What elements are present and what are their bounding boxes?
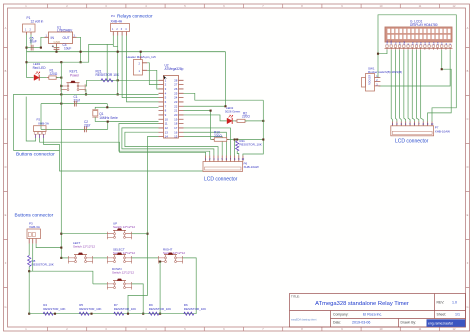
- svg-text:GND: GND: [54, 40, 62, 44]
- svg-text:ATmega328 standalone Relay Tim: ATmega328 standalone Relay Timer: [315, 301, 409, 307]
- wire U2 pin25 to right loop: [184, 93, 264, 100]
- junction bus R4: [54, 313, 56, 315]
- resistor R8 10K zigzag: [28, 256, 31, 267]
- svg-text:REV:: REV:: [437, 301, 445, 305]
- svg-text:VDD: VDD: [391, 40, 393, 45]
- wire U2 pin20 to LED2: [184, 115, 227, 121]
- wire U2 pin14 down through UP row to bus: [128, 137, 159, 314]
- svg-text:LCD connector: LCD connector: [395, 139, 429, 145]
- switch LEFT: [68, 255, 92, 264]
- junction U1 OUT bus: [80, 51, 82, 53]
- svg-text:RESISTOR 10K: RESISTOR 10K: [96, 73, 120, 77]
- junction trunk rail62: [60, 61, 62, 63]
- wire R11 to LCD conn pin9: [237, 151, 239, 156]
- svg-text:Power: Power: [70, 73, 80, 77]
- wire P1 pin2 down: [30, 35, 32, 45]
- svg-text:El Roza inc.: El Roza inc.: [363, 313, 382, 317]
- junction bus R9: [159, 313, 161, 315]
- wire relay pin3 to U2 pin5: [122, 36, 158, 98]
- wire JP1 pin5 up to bus: [140, 52, 142, 56]
- wire display pin6 to P7 pin5: [408, 50, 410, 122]
- junction KEY1 rail: [85, 93, 87, 95]
- junction R11 top: [236, 138, 238, 140]
- resistor R9 10K zigzag: [149, 312, 159, 315]
- wire relay pin4 to U2 pin6: [127, 36, 159, 102]
- wire LED1 to R1: [39, 77, 47, 79]
- capacitor C4 10uF polarized: [54, 48, 60, 50]
- wire U2 pin17 to LCD conn pin7: [184, 128, 231, 156]
- wire DOWN row left: [93, 283, 108, 285]
- junction trunk rail: [60, 93, 62, 95]
- wire P2 pin2 to LCD conn pin1: [40, 138, 206, 156]
- svg-text:Red LED: Red LED: [33, 66, 47, 70]
- svg-text:E: E: [467, 213, 469, 217]
- wire crystal top link: [95, 106, 107, 108]
- svg-text:5026 Green: 5026 Green: [225, 110, 241, 114]
- svg-text:2019-03-06: 2019-03-06: [352, 321, 370, 325]
- svg-text:15: 15: [174, 135, 178, 139]
- svg-text:B: B: [5, 69, 7, 73]
- junction R1 trunk: [60, 77, 62, 79]
- svg-text:TITLE:: TITLE:: [291, 295, 300, 299]
- wire R1 to trunk: [56, 77, 61, 79]
- wire RIGHT row to bus: [183, 258, 197, 314]
- wire to U2 XTAL2: [108, 122, 159, 130]
- wire display pin2 to P7 pin1: [391, 50, 392, 122]
- IC U2 ATMega328p: [159, 64, 184, 139]
- wire C1-C2 gnd link: [40, 104, 42, 130]
- svg-text:XHB-3A: XHB-3A: [38, 121, 49, 125]
- svg-text:1/1: 1/1: [455, 313, 460, 317]
- svg-text:A: A: [5, 26, 7, 30]
- svg-text:14: 14: [165, 135, 169, 139]
- wire LEFT to SELECT: [93, 257, 108, 259]
- wire right loop to LCD conn pin10: [243, 100, 263, 155]
- wire relay pin1 jog to pin2 column: [113, 36, 117, 47]
- wire P3 pin2 down: [32, 244, 34, 272]
- wire JP1 pin1 to U2 pin3: [147, 70, 158, 89]
- svg-text:RESISTOR_10K: RESISTOR_10K: [149, 307, 171, 311]
- wire crystal bottom link: [95, 121, 108, 123]
- junction trunk UP row: [60, 233, 62, 235]
- junction bus x128: [127, 313, 129, 315]
- wire UP row right: [132, 233, 148, 235]
- wire U2 pin12 to LCD conn pin3: [122, 128, 214, 156]
- svg-text:G: G: [466, 305, 468, 309]
- resistor R2 220 ohm: [235, 119, 247, 122]
- svg-text:10uF: 10uF: [64, 47, 71, 51]
- regulator U1 L7805ABV: [45, 25, 77, 46]
- wire LEFT row left: [61, 257, 68, 259]
- cursor arrow at U2 pin1: [163, 75, 167, 79]
- svg-text:Company:: Company:: [333, 313, 349, 317]
- junction pin22 +5V: [224, 105, 226, 107]
- svg-text:RESISTOR_10K: RESISTOR_10K: [240, 142, 262, 146]
- title block frame: [290, 294, 466, 328]
- svg-text:RESISTOR_10K: RESISTOR_10K: [184, 307, 206, 311]
- resistor R21 10K zigzag: [101, 79, 113, 82]
- capacitor C2 22pf: [85, 127, 87, 133]
- wire display pin3 to P7 pin2: [395, 50, 396, 122]
- resistor R7 10K zigzag: [114, 312, 124, 315]
- svg-text:P4: P4: [111, 14, 115, 18]
- wire RIGHT bottom to bus: [159, 262, 161, 314]
- junction R8 DOWN feed: [28, 270, 30, 272]
- svg-text:Switch 12*12*12: Switch 12*12*12: [73, 245, 95, 249]
- wire display pin5 to P7 pin4: [404, 50, 406, 122]
- wire P3 pin1 to R8: [28, 244, 30, 256]
- wire U2 pin22: [184, 105, 226, 107]
- junction OUT rail62: [80, 61, 82, 63]
- wire gnd trunk vertical: [60, 62, 62, 258]
- svg-text:10uF: 10uF: [30, 40, 37, 44]
- display pin strip: [387, 40, 452, 45]
- junction relay pin2 bus: [117, 51, 119, 53]
- wire UP row left: [61, 233, 107, 235]
- svg-text:LCD connector: LCD connector: [204, 177, 238, 183]
- wire display pin16 to SW1 pin3: [378, 50, 450, 86]
- svg-text:easyEDA drawing sheet: easyEDA drawing sheet: [291, 319, 317, 322]
- connector P3 XHB-3A: [27, 222, 41, 244]
- junction bus R5: [90, 313, 92, 315]
- wire display pin9 to P7 pin8: [421, 50, 424, 122]
- switch KEY1 power: [61, 83, 85, 92]
- junction DOWN bus: [142, 313, 144, 315]
- wire C5 to U1 IN: [41, 37, 45, 47]
- svg-text:Relays connector: Relays connector: [117, 14, 153, 19]
- svg-text:RESISTOR_10K: RESISTOR_10K: [32, 263, 54, 267]
- svg-text:220Ω: 220Ω: [50, 72, 58, 76]
- wire KEY1 to U2 pin1 via R21: [85, 80, 158, 86]
- wire x107 feed: [106, 44, 108, 80]
- wire U2 pin16 to LCD conn pin6: [184, 132, 227, 155]
- wire C1 row: [41, 103, 107, 105]
- wire R2 to right loop: [245, 120, 263, 122]
- wire U1 OUT down to rail62: [77, 37, 81, 62]
- svg-text:ATMega328p: ATMega328p: [165, 67, 184, 71]
- svg-text:Buttons connector: Buttons connector: [16, 152, 55, 158]
- connector P1 12 volt in: [23, 16, 44, 35]
- svg-text:E: E: [5, 213, 7, 217]
- junction C5 right: [40, 47, 42, 49]
- svg-text:XHB-10AW: XHB-10AW: [244, 165, 259, 169]
- wire left rail to vertical: [13, 149, 59, 151]
- capacitor C1 22pf: [74, 101, 76, 107]
- junction xtal1 node: [106, 106, 108, 108]
- wire P3 pin3 to trunk: [36, 244, 61, 248]
- wire U1 GND to C4: [56, 46, 58, 52]
- svg-text:C: C: [467, 117, 469, 121]
- junction xtal2 node: [107, 121, 109, 123]
- svg-text:1.0: 1.0: [452, 301, 457, 305]
- junction pin3 trunk: [60, 247, 62, 249]
- wire display pin7 to P7 pin6: [412, 50, 414, 122]
- wire P1 pin1 down to LED row: [26, 35, 28, 78]
- wire display pin8 to P7 pin7: [416, 50, 418, 122]
- LED LED2 green: [227, 115, 233, 124]
- wire bottom bus: [29, 313, 196, 315]
- wire bus down to pin22 node: [225, 52, 227, 107]
- junction R8 bus: [28, 313, 30, 315]
- junction pin8 drop: [234, 138, 236, 140]
- junction P1 rail62: [25, 61, 27, 63]
- wire to LED1: [27, 77, 34, 79]
- svg-text:220Ω: 220Ω: [242, 115, 250, 119]
- resistor R6 10K zigzag: [184, 312, 194, 315]
- junction RIGHT bottom: [159, 261, 161, 263]
- wire R8 node to DOWN row: [29, 271, 93, 284]
- svg-text:ROCKER: ROCKER: [369, 74, 372, 85]
- sheet border row ticks left/right: [4, 48, 470, 288]
- svg-text:XHB-10AW: XHB-10AW: [435, 129, 450, 133]
- switch UP: [107, 230, 131, 239]
- svg-text:12 volt in: 12 volt in: [31, 20, 44, 24]
- junction display pin14: [441, 68, 443, 70]
- wire R10 row: [211, 139, 264, 141]
- resistor R5 10K zigzag: [79, 312, 89, 315]
- drawn by value: [427, 319, 466, 327]
- connector P7 XHB-10AW right: [391, 122, 450, 136]
- svg-text:eng.ramezraafat: eng.ramezraafat: [428, 322, 453, 326]
- switch DOWN: [107, 281, 131, 290]
- wire to LCD conn pin8: [234, 140, 236, 156]
- wire gnd rail to U2 pin4: [13, 93, 158, 95]
- junction JP1 bus: [140, 51, 142, 53]
- junction pin21: [210, 110, 212, 112]
- wire U2 pin15 to LCD conn pin5: [184, 137, 223, 156]
- svg-text:B: B: [467, 69, 469, 73]
- svg-text:Drawn By:: Drawn By:: [401, 321, 417, 325]
- wire R8 to bottom bus: [28, 267, 30, 314]
- wire display pin1 to SW1 net: [378, 50, 387, 54]
- svg-text:OUT: OUT: [63, 36, 70, 40]
- connector P6 XHB-10AW LCD: [203, 156, 259, 172]
- resistor R10 220 ohm: [212, 138, 228, 142]
- wire U2 pin13 to LCD conn pin4: [125, 132, 218, 155]
- svg-text:Sheet:: Sheet:: [437, 313, 447, 317]
- wire JP1 pin2 to U2 pin2: [147, 63, 158, 85]
- svg-text:D: D: [5, 165, 7, 169]
- junction C4 bus: [55, 51, 57, 53]
- connector P2 XHB-3A upper buttons: [34, 118, 49, 139]
- header JP1 Header Male 5-pin: [127, 55, 157, 75]
- LED LED1 red: [34, 72, 40, 81]
- wire P2 pin1 up to gnd rail: [26, 97, 35, 141]
- svg-text:RW: RW: [404, 41, 406, 44]
- crystal Q1 16MHz: [92, 107, 118, 121]
- wire +5V bus: [27, 51, 226, 53]
- svg-text:Switch 12*12*12: Switch 12*12*12: [113, 225, 135, 229]
- wire rail62 up to relay rail: [27, 44, 114, 62]
- svg-text:Date:: Date:: [333, 321, 341, 325]
- wire loop display to P7 pin10: [378, 15, 456, 122]
- capacitor C5 10uF: [31, 45, 33, 51]
- switch RIGHT: [158, 255, 182, 264]
- svg-text:C: C: [5, 117, 7, 121]
- wire display pin4 to P7 pin3: [400, 50, 402, 122]
- svg-text:XHB-4A: XHB-4A: [111, 20, 123, 24]
- svg-text:XHB-3A: XHB-3A: [29, 225, 40, 229]
- title block texts: [291, 295, 446, 325]
- junction R21 wire / relay pin2 column: [117, 79, 119, 81]
- svg-text:D: D: [467, 165, 469, 169]
- junction SW1 loop: [377, 53, 379, 55]
- junction R2 right loop: [262, 120, 264, 122]
- wire P2 pin3 to LCD conn left: [44, 138, 203, 171]
- wire to U2 XTAL1: [107, 104, 158, 108]
- resistor R11 10K zigzag: [236, 141, 239, 151]
- connector P4 relays XHB-4A: [111, 14, 153, 36]
- svg-text:RESISTOR_10K: RESISTOR_10K: [114, 307, 136, 311]
- junction UP row right: [146, 233, 148, 235]
- wire relay pin2 column: [117, 36, 119, 95]
- svg-text:Header Male5-pin_1x5: Header Male5-pin_1x5: [127, 55, 157, 59]
- wire C5 row: [27, 47, 41, 49]
- junction KEY1 trunk: [60, 85, 62, 87]
- svg-text:Switch 12*12*12: Switch 12*12*12: [112, 271, 134, 275]
- switch SW1 rocker: [362, 66, 403, 91]
- svg-text:RESISTOR_10K: RESISTOR_10K: [43, 307, 65, 311]
- wire left rail vertical: [12, 94, 14, 150]
- resistor R1 220 ohm: [47, 76, 58, 79]
- junction P1/C5: [25, 47, 27, 49]
- junction C1 gnd trunk: [60, 103, 62, 105]
- wire LED2 to R2: [232, 120, 236, 122]
- svg-text:RESISTOR_10K: RESISTOR_10K: [79, 307, 101, 311]
- svg-text:Buttons connector: Buttons connector: [15, 213, 54, 219]
- wire SELECT to RIGHT: [132, 257, 159, 259]
- wire U2 pin11 to LCD conn pin2: [119, 124, 210, 156]
- svg-text:16MHz Serie: 16MHz Serie: [99, 116, 118, 120]
- junction R10 right loop: [262, 138, 264, 140]
- svg-text:22pf: 22pf: [84, 123, 90, 127]
- switch SELECT: [107, 255, 131, 264]
- junction trunk LEFT row: [60, 257, 62, 259]
- wire C2 row: [41, 128, 108, 130]
- junction relay pin2 rail: [117, 93, 119, 95]
- wire U2 pin21 down: [184, 111, 211, 140]
- svg-text:VSS: VSS: [387, 40, 389, 45]
- wire display pin14 to P7 pin9: [428, 50, 452, 122]
- display G_LCD1 HD44780: [385, 19, 452, 42]
- svg-text:A: A: [467, 26, 469, 30]
- wire DOWN row to bus: [132, 284, 144, 314]
- resistor R4 10K zigzag: [43, 312, 53, 315]
- wire KEY1 bottom down: [84, 90, 87, 95]
- svg-text:G: G: [4, 305, 6, 309]
